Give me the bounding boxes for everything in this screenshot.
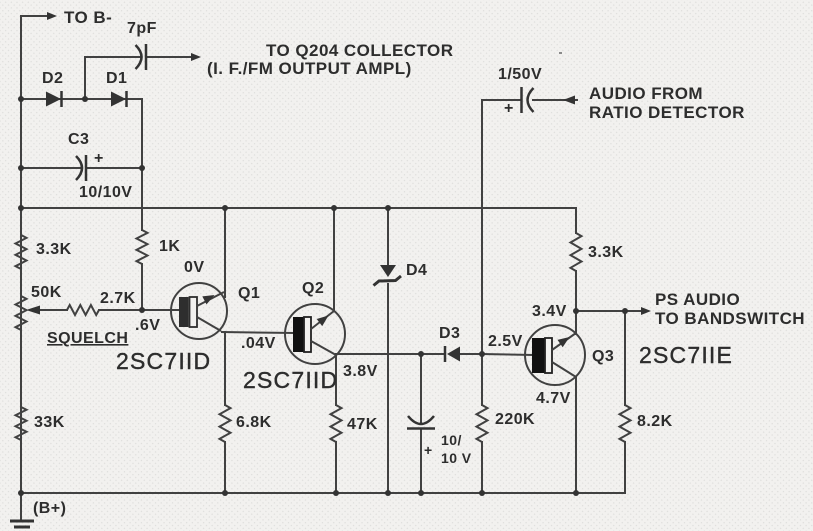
wire Q2 emitter down to 47K	[335, 354, 337, 405]
node diode row / left rail	[18, 96, 24, 102]
wire vertical x142 diode row to C3	[141, 99, 143, 168]
wire D4 branch bottom	[387, 284, 389, 493]
svg-text:8.2K: 8.2K	[637, 413, 673, 430]
wire 6.8K to bottom rail	[224, 442, 226, 493]
capacitor C3	[76, 155, 86, 181]
wire main bus	[21, 207, 576, 209]
arrow AUDIO FROM (points left)	[563, 96, 575, 105]
svg-text:PS AUDIO: PS AUDIO	[655, 290, 740, 309]
resistor 47K	[331, 405, 342, 442]
wire Q2 emitter row	[336, 353, 443, 355]
svg-text:Q3: Q3	[592, 348, 614, 365]
svg-text:220K: 220K	[495, 411, 535, 428]
node bottom D4	[385, 490, 391, 496]
capacitor 1/50V	[522, 87, 534, 113]
wire 7pF row right	[147, 56, 193, 58]
svg-text:D3: D3	[439, 325, 460, 342]
resistor 1K	[137, 230, 148, 264]
svg-text:47K: 47K	[347, 416, 378, 433]
svg-text:.6V: .6V	[135, 317, 160, 334]
svg-text:(I. F./FM OUTPUT AMPL): (I. F./FM OUTPUT AMPL)	[207, 59, 412, 78]
diode D1	[111, 91, 127, 107]
svg-text:2SC7IID: 2SC7IID	[116, 348, 211, 374]
wire diode row	[21, 98, 142, 100]
wire 8.2K to bottom rail corner	[624, 442, 626, 493]
svg-text:TO B-: TO B-	[64, 8, 112, 27]
wire 1K to Q1 base junction	[141, 264, 143, 310]
svg-text:10 V: 10 V	[441, 450, 472, 466]
zener diode D4	[374, 265, 402, 286]
svg-text:+: +	[94, 150, 104, 167]
node bus left rail	[18, 205, 24, 211]
wire C3 row	[21, 167, 81, 169]
svg-text:0V: 0V	[184, 259, 204, 276]
node bus Q1 collector	[222, 205, 228, 211]
wire 7pF row left	[85, 56, 140, 58]
wire 3.3K right to 3.4V node	[575, 271, 577, 311]
svg-text:.04V: .04V	[241, 335, 276, 352]
svg-text:10/: 10/	[441, 432, 462, 448]
svg-text:3.3K: 3.3K	[588, 244, 624, 261]
wire right branch bus corner to 3.3K	[575, 208, 577, 233]
transistor Q3	[525, 325, 585, 385]
node bottom Q3 emitter	[573, 490, 579, 496]
wire 3.4V output row	[576, 310, 642, 312]
wire 47K to bottom rail	[335, 442, 337, 493]
svg-text:1K: 1K	[159, 238, 180, 255]
wire D4 branch top	[387, 208, 389, 264]
svg-text:3.8V: 3.8V	[343, 363, 378, 380]
svg-text:Q1: Q1	[238, 285, 260, 302]
node bottom left rail	[18, 490, 24, 496]
wire 7pF branch vertical	[84, 57, 86, 99]
node bottom 6.8K	[222, 490, 228, 496]
wire 2.7K row left	[38, 309, 67, 311]
wire 2.7K row right	[99, 309, 142, 311]
resistor 6.8K	[220, 405, 231, 442]
svg-text:6.8K: 6.8K	[236, 414, 272, 431]
transistor Q1	[171, 283, 227, 339]
node cap 10/10V top	[418, 351, 424, 357]
node bottom cap	[418, 490, 424, 496]
svg-text:AUDIO FROM: AUDIO FROM	[589, 84, 703, 103]
node C3 left	[18, 165, 24, 171]
svg-text:D2: D2	[42, 70, 63, 87]
svg-text:2.7K: 2.7K	[100, 290, 136, 307]
wire bottom rail	[21, 492, 625, 494]
wire 1-50V cap row right	[533, 99, 577, 101]
svg-text:2SC7IID: 2SC7IID	[243, 367, 338, 393]
svg-text:(B+): (B+)	[33, 500, 66, 517]
resistor 220K	[477, 405, 488, 442]
node C3 right	[139, 165, 145, 171]
diode D2	[46, 91, 62, 107]
svg-text:3.3K: 3.3K	[36, 241, 72, 258]
wire vertical x142 C3 to 1K	[141, 168, 143, 230]
arrow PS AUDIO	[641, 307, 651, 315]
svg-text:2.5V: 2.5V	[488, 333, 523, 350]
wire D3 row right	[460, 353, 482, 355]
svg-text:D1: D1	[106, 70, 127, 87]
wire 8.2K branch top	[624, 311, 626, 405]
svg-text:33K: 33K	[34, 414, 65, 431]
wire Q1 collector vertical	[224, 208, 226, 297]
resistor 33K	[16, 407, 27, 440]
svg-text:1/50V: 1/50V	[498, 66, 542, 83]
arrow TO B-	[47, 12, 57, 20]
potentiometer wiper arrow	[26, 306, 40, 315]
svg-text:SQUELCH: SQUELCH	[47, 330, 128, 347]
arrow TO Q204	[191, 53, 201, 61]
resistor 3.3K right	[571, 233, 582, 271]
svg-text:3.4V: 3.4V	[532, 303, 567, 320]
svg-text:Q2: Q2	[302, 280, 324, 297]
resistor R 3.3K left	[16, 235, 27, 269]
svg-text:2SC7IIE: 2SC7IIE	[639, 342, 733, 368]
svg-text:10/10V: 10/10V	[79, 184, 132, 201]
svg-text:4.7V: 4.7V	[536, 390, 571, 407]
node Q1 base junction	[139, 307, 145, 313]
node bus D4	[385, 205, 391, 211]
svg-text:TO Q204 COLLECTOR: TO Q204 COLLECTOR	[266, 41, 453, 60]
ground	[10, 521, 34, 527]
capacitor 7pF	[136, 44, 147, 70]
wire Q1 emitter row to Q2 base	[222, 332, 295, 333]
wire Q1 emitter down to 6.8K	[224, 332, 226, 405]
capacitor 10/10V electrolytic	[407, 416, 435, 429]
node D2-D1 junction	[82, 96, 88, 102]
diode D3	[445, 346, 460, 362]
wire left rail	[20, 16, 22, 493]
wire 1-50V cap branch vertical	[481, 100, 483, 354]
wire cap 10/10V branch top	[420, 354, 422, 423]
svg-text:TO BANDSWITCH: TO BANDSWITCH	[655, 309, 805, 328]
svg-text:RATIO DETECTOR: RATIO DETECTOR	[589, 103, 745, 122]
wire 1-50V cap row left	[482, 99, 520, 101]
node 3.4V	[573, 308, 579, 314]
svg-text:+: +	[424, 442, 433, 458]
svg-text:D4: D4	[406, 262, 427, 279]
wire Q2 collector vertical	[333, 208, 335, 311]
resistor 2.7K	[67, 305, 99, 315]
wire TO B- branch	[21, 15, 49, 17]
wire Q3 base row	[482, 354, 533, 355]
svg-text:7pF: 7pF	[127, 20, 157, 37]
resistor 8.2K	[620, 405, 631, 442]
node bottom 220K	[479, 490, 485, 496]
wire 220K to bottom rail	[481, 442, 483, 493]
svg-text:C3: C3	[68, 131, 89, 148]
stray ink speck	[559, 52, 562, 54]
wire cap 10/10V branch bottom	[420, 430, 422, 493]
resistor 50K potentiometer body	[16, 296, 27, 330]
node D3 right / 220K	[479, 351, 485, 357]
transistor Q2	[285, 304, 345, 364]
node 8.2K top	[622, 308, 628, 314]
wire Q3 emitter vertical	[575, 377, 577, 493]
wire Q1 base row	[142, 309, 180, 311]
wire 220K top	[481, 354, 483, 405]
svg-text:50K: 50K	[31, 284, 62, 301]
node bus Q2 collector	[331, 205, 337, 211]
svg-text:+: +	[504, 100, 514, 117]
wire ground stub	[20, 493, 22, 521]
node bottom 47K	[333, 490, 339, 496]
wire 3.4V node to Q3 collector	[575, 311, 577, 334]
